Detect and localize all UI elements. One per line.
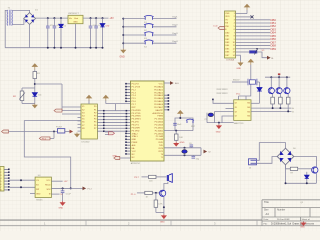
push button S3 (144, 32, 154, 36)
port SDA (109, 132, 115, 135)
wire q4 emitter (287, 94, 289, 97)
svg-text:GND: GND (59, 208, 64, 210)
junction regulator gnd (75, 47, 77, 49)
wire rectified rail (36, 17, 69, 19)
wire key left (123, 34, 145, 36)
svg-text:CON16A: CON16A (226, 59, 235, 62)
svg-text:SG: SG (247, 116, 250, 118)
svg-text:SCK: SCK (46, 189, 51, 191)
wire key left (123, 26, 145, 28)
junction gnd rail 2 (60, 47, 62, 49)
port LCD (218, 27, 225, 30)
pin tick U3 6 (103, 125, 105, 127)
wire row14 down (240, 55, 242, 61)
svg-text:GND: GND (300, 226, 305, 228)
port INT0 (54, 109, 62, 112)
wire to base (152, 192, 159, 194)
wire r3 gnd (175, 140, 177, 142)
MCU left pin 1 (126, 83, 131, 85)
ground j1 (239, 61, 243, 65)
svg-text:PSEN: PSEN (157, 116, 163, 118)
wire bridge to rail (285, 165, 287, 184)
J2 pin 8 (4, 189, 9, 191)
ground sensor (33, 104, 37, 108)
svg-text:RXD: RXD (159, 142, 164, 144)
junction emitter (163, 206, 165, 208)
junction gnd rail (90, 47, 92, 49)
wire led top lead (102, 18, 104, 23)
svg-text:D2: D2 (64, 26, 66, 28)
svg-text:P3.3/INT1: P3.3/INT1 (132, 119, 142, 121)
reset button S5 (186, 119, 194, 123)
junction rail left (285, 182, 287, 184)
wire down to ds1302 (61, 84, 63, 111)
svg-text:ALE: ALE (132, 144, 137, 147)
svg-text:GND: GND (236, 68, 241, 70)
junction key bus (122, 18, 124, 20)
junction row a2 (279, 107, 281, 109)
svg-text:SG: SG (247, 107, 250, 109)
wire U3-MCU 8 (97, 130, 130, 132)
junction key bus (122, 26, 124, 28)
wire opto bottom (22, 103, 35, 105)
wire key left (123, 42, 145, 44)
pin tick U3 4 (103, 119, 105, 121)
diode D4 (33, 93, 38, 96)
IC U3 pin text (82, 106, 97, 130)
wire diode bottom lead (60, 28, 62, 48)
wire u4 pin3 out (51, 193, 59, 195)
MCU left pin 3 (126, 89, 131, 91)
svg-text:EA/VPP: EA/VPP (156, 109, 164, 112)
wire j1 row14 (236, 54, 241, 56)
svg-text:P1.1/T2X: P1.1/T2X (132, 86, 141, 88)
wire key left (123, 18, 145, 20)
svg-text:P0.5/AD5: P0.5/AD5 (154, 100, 164, 103)
svg-text:P0.0/AD0: P0.0/AD0 (154, 85, 164, 88)
svg-text:GND: GND (216, 131, 221, 133)
pin tick U3 7 (103, 127, 105, 129)
resistor R3 (174, 134, 178, 140)
wire cap bottom lead (90, 28, 92, 48)
wire buzzer down (164, 182, 168, 191)
transistor Q4 (284, 88, 290, 94)
svg-text:VCC: VCC (236, 93, 241, 95)
crystal Y1 (182, 150, 187, 154)
wire rail vcc stub (278, 75, 280, 78)
wire vcc reset stem (179, 116, 181, 118)
svg-text:P2.2/A10: P2.2/A10 (155, 132, 164, 135)
wire emitter join (156, 212, 164, 214)
wire diode top lead (60, 18, 62, 24)
svg-text:A4: A4 (266, 212, 270, 216)
svg-text:SG: SG (247, 103, 250, 105)
wire j1 data 5 (236, 35, 271, 37)
svg-text:DB9: DB9 (271, 47, 277, 51)
wire vcc u7 path (239, 65, 251, 100)
wire bridge bottom (286, 165, 291, 169)
wire q1 collector (270, 77, 272, 87)
MCU left pin low 5 (126, 144, 131, 146)
svg-text:NC: NC (132, 154, 135, 156)
svg-text:PC817: PC817 (56, 126, 63, 128)
zone tick 3 (256, 220, 258, 226)
IC U3 DS1302 (81, 104, 97, 139)
svg-text:P2.0/A8: P2.0/A8 (156, 138, 164, 141)
wire c8 top (62, 188, 64, 190)
wire emitter (163, 196, 165, 212)
wire c6 leg (190, 147, 192, 148)
connector J1 pin text (225, 13, 235, 57)
MCU left pin low 8 (126, 153, 131, 155)
transistor Q1 (159, 190, 165, 196)
svg-text:VO: VO (225, 19, 228, 21)
wire bridge to gnd rail (29, 24, 31, 47)
sheet border line 1 (0, 219, 262, 221)
wire j1 data 9 (236, 48, 271, 50)
wire to R3 (175, 131, 177, 134)
junction u4 a (20, 179, 22, 181)
svg-text:Key2: Key2 (173, 25, 179, 27)
svg-text:DS1302: DS1302 (82, 142, 91, 144)
wire opto left bottom (21, 101, 23, 104)
capacitor C6 (190, 145, 194, 147)
J2 pin 1 (4, 168, 9, 170)
junction 5v c3 (90, 17, 92, 19)
connector J2 pin text (0, 169, 1, 192)
wire to U3 pin3 (62, 113, 81, 115)
wire j3 bottom (257, 157, 278, 164)
wire p3.7 (142, 176, 149, 178)
crystal Y2 (208, 113, 213, 117)
wire diode d7 (306, 172, 308, 184)
wire xtal join (200, 148, 202, 156)
svg-text:PSEN: PSEN (132, 142, 138, 144)
J2 pin 5 (4, 180, 9, 182)
svg-text:P3.7/RD: P3.7/RD (132, 130, 140, 132)
svg-text:VSS: VSS (225, 13, 230, 15)
transistor Q5 (312, 167, 318, 174)
capacitor C3 (89, 26, 93, 28)
U3 left pin stub (78, 127, 82, 129)
wire j1 data 0 (236, 19, 271, 21)
MCU right pin 2 (164, 97, 168, 99)
J2 pin 4 (4, 177, 9, 179)
svg-text:+5V: +5V (64, 181, 68, 183)
pin tick MCU 5 (126, 122, 128, 124)
wire opto left top (21, 88, 23, 91)
transformer T1 (7, 10, 12, 26)
junction u4 b (20, 186, 22, 188)
IC U4 pin text (36, 180, 51, 196)
wire rp1 out (257, 52, 267, 58)
diode D5 (257, 88, 262, 91)
svg-text:GND: GND (180, 142, 185, 144)
wire j1 data 2 (236, 25, 271, 27)
svg-text:HOLD: HOLD (45, 184, 51, 186)
svg-text:P2.4/A12: P2.4/A12 (155, 126, 164, 129)
junction key bus (122, 42, 124, 44)
svg-text:xxxx:xxxxx: xxxx:xxxxx (217, 93, 229, 95)
thermistor R2 (20, 91, 24, 101)
wire u4 vcc pin (51, 180, 62, 182)
wire vcc j1 stem (246, 10, 248, 14)
MCU left pin low 6 (126, 147, 131, 149)
wire cap bottom lead (53, 28, 55, 48)
J2 pin 7 (4, 186, 9, 188)
wire reset bottom (164, 130, 193, 132)
wire branch (50, 137, 54, 139)
svg-text:AT89C52: AT89C52 (131, 162, 141, 165)
svg-text:P3.0/RXD: P3.0/RXD (132, 110, 142, 112)
svg-text:P2.5/A13: P2.5/A13 (155, 124, 164, 127)
ground reset (174, 142, 178, 146)
resistor R5 (145, 191, 153, 194)
power VCC reset (178, 111, 182, 117)
svg-text:VDD: VDD (225, 16, 230, 18)
svg-text:ALE/PROG: ALE/PROG (153, 112, 164, 115)
svg-text:Key1: Key1 (173, 17, 179, 19)
wire j1 data 8 (236, 45, 271, 47)
wire key right (153, 26, 177, 28)
wire j2 to u4 b (9, 186, 35, 188)
junction row b1 (287, 110, 289, 112)
junction loop (70, 187, 72, 189)
svg-text:TXD: TXD (159, 145, 164, 147)
MCU right pin 5 (164, 106, 168, 108)
pin tick MCU 7 (126, 127, 128, 129)
wire y2 right leg (214, 112, 216, 123)
wire sensor to right (35, 83, 62, 85)
wire j1 data 1 (236, 22, 271, 24)
svg-text:Key4: Key4 (173, 41, 179, 43)
wire opto out (65, 131, 70, 133)
svg-text:P2.6/A14: P2.6/A14 (155, 121, 164, 124)
junction row a1 (272, 107, 274, 109)
junction gnd rail (95, 47, 97, 49)
svg-text:+5V: +5V (109, 17, 114, 20)
connector J1 LCD (225, 11, 236, 58)
wire y2 left leg (206, 113, 208, 123)
transistor Q3 (276, 88, 282, 94)
svg-text:7: 7 (0, 187, 1, 189)
svg-text:8: 8 (0, 190, 1, 192)
capacitor C2 (53, 26, 57, 28)
ground y2 (217, 124, 221, 128)
pin tick U3 8 (103, 130, 105, 132)
svg-text:4.7K: 4.7K (158, 204, 163, 206)
diode D7 (305, 175, 309, 178)
junction 5v c4 (95, 17, 97, 19)
wire y1 bottom leg (184, 154, 186, 156)
port XTAL arrow (204, 150, 208, 154)
pin tick MCU 4 (126, 119, 128, 121)
wire y2 gnd stub (218, 123, 220, 125)
wire q3 emitter (279, 94, 281, 97)
wire diode branch (259, 82, 261, 103)
svg-text:RW: RW (225, 26, 228, 28)
wire U3-MCU 4 (97, 118, 130, 120)
U3 left pin stub (78, 120, 82, 122)
svg-text:VCC: VCC (132, 151, 137, 153)
resistor R4 (149, 175, 157, 178)
wire cap top lead (90, 18, 92, 26)
U3 left pin stub (78, 123, 82, 125)
svg-text:P0.6/AD6: P0.6/AD6 (154, 103, 164, 106)
transistor Q2 (268, 88, 274, 94)
MCU right pin 6 (164, 109, 168, 111)
sheet border line 2 (0, 225, 320, 227)
wire secondary bottom (12, 19, 24, 25)
wire U3-MCU 2 (97, 113, 130, 115)
wire base pulldown (155, 193, 157, 200)
svg-text:P1.0/T2: P1.0/T2 (132, 84, 140, 86)
wire q rail (265, 76, 290, 78)
resistor R7 (290, 167, 297, 170)
U3 left pin stub (78, 130, 82, 132)
wire to q5 base (298, 168, 312, 170)
junction rail d2 (60, 17, 62, 19)
wire key right (153, 34, 177, 36)
power VCC U3 (87, 96, 91, 102)
MCU left pin 6 (126, 97, 131, 99)
wire rq3 down (287, 104, 289, 111)
port VO arrow (267, 56, 271, 60)
wire opto top (22, 87, 35, 89)
svg-text:P0.1/AD1: P0.1/AD1 (154, 88, 164, 91)
wire U3-MCU 6 (97, 124, 130, 126)
svg-text:P3.6/WR: P3.6/WR (132, 127, 141, 129)
wire opto row (9, 131, 58, 133)
svg-text:P3.4/T0: P3.4/T0 (132, 122, 140, 124)
LED D3 (100, 24, 104, 27)
wire y1 top leg (184, 148, 186, 150)
wire u7 row b (251, 110, 292, 112)
wire led bottom lead (102, 28, 104, 48)
capacitor C1 (46, 26, 50, 28)
svg-text:ALE: ALE (175, 82, 180, 85)
wire branch down (53, 132, 55, 139)
svg-text:P2.7/A15: P2.7/A15 (155, 118, 164, 121)
push button S1 (144, 15, 154, 19)
svg-text:P3.2/INT0: P3.2/INT0 (132, 116, 142, 118)
wire vcc stem (105, 101, 107, 104)
wire j1 data 7 (236, 41, 271, 43)
wire long to U3 (24, 120, 81, 122)
junction key bus (122, 34, 124, 36)
wire q3 collector (286, 77, 288, 87)
MCU U1 pin text (132, 84, 164, 159)
MCU left pin 4 (126, 92, 131, 94)
svg-text:Vin Vout: Vin Vout (69, 17, 79, 20)
svg-text:P3.1/TXD: P3.1/TXD (132, 113, 141, 115)
svg-text:P2.1/A9: P2.1/A9 (156, 135, 164, 138)
junction rail q1 (270, 76, 272, 78)
wire port a (105, 131, 113, 133)
ground symbol near title block (302, 222, 306, 226)
wire j1 row13 (236, 51, 250, 53)
svg-text:GND: GND (36, 193, 41, 195)
pin tick MCU 2 (126, 113, 128, 115)
wire ground rail (5, 47, 102, 49)
svg-text:0.1uF: 0.1uF (66, 194, 72, 196)
bridge rectifier D1 (24, 13, 36, 25)
svg-text:4: 4 (0, 178, 1, 180)
svg-text:Sheet of: Sheet of (302, 218, 311, 221)
wire c7 leg (192, 155, 194, 156)
bridge rectifier D6 (277, 148, 294, 165)
junction cap c8 (62, 187, 64, 189)
port ALE arrow (170, 81, 174, 85)
MCU right pin 1 (164, 94, 168, 96)
push button S2 (144, 24, 154, 28)
power VCC U7 (249, 60, 253, 66)
stub u4 pin3 (30, 193, 35, 195)
connector J3 (249, 159, 257, 165)
svg-text:5: 5 (0, 181, 1, 183)
svg-text:LM7805CT: LM7805CT (68, 13, 79, 15)
pin tick U3 1 (103, 110, 105, 112)
MCU U1 AT89C52 (131, 81, 165, 161)
junction d7 (306, 182, 308, 184)
J2 pin 2 (4, 171, 9, 173)
ground c8 (61, 201, 65, 205)
wire j1 data 6 (236, 38, 271, 40)
U3 left pin stub (78, 117, 82, 119)
MCU left pin 2 (126, 86, 131, 88)
wire key right (153, 42, 177, 44)
svg-text:GND: GND (160, 222, 165, 224)
wire vcc to U3 (88, 101, 90, 105)
transformer T1 primary lead (5, 10, 7, 47)
wire MCU gnd pin (120, 157, 131, 159)
wire x2 left (232, 81, 248, 83)
svg-text:VCC: VCC (159, 84, 164, 86)
wire U3-MCU 3 (97, 116, 130, 118)
svg-text:P3.2: P3.2 (42, 138, 46, 140)
svg-text:XTAL1: XTAL1 (132, 135, 139, 138)
optocoupler U6 (58, 129, 65, 133)
wire U3-MCU 5 (97, 121, 130, 123)
svg-text:P0.3/AD3: P0.3/AD3 (154, 94, 164, 97)
capacitor C5 10uF (173, 123, 177, 125)
wire regulator gnd pin (75, 24, 77, 48)
svg-text:xxxx:xxxxx: xxxx:xxxxx (217, 89, 229, 91)
wire j1 data 3 (236, 28, 271, 30)
resistor Rq3 (286, 97, 290, 104)
svg-text:NC: NC (132, 157, 135, 159)
port AC detect (2, 130, 9, 133)
zener diode D2 (59, 24, 63, 27)
MCU left pin 7 (126, 100, 131, 102)
thermistor R2 arrow (19, 93, 25, 100)
wire cap top lead (53, 18, 55, 26)
svg-text:VCC: VCC (46, 180, 51, 182)
wire key right (153, 18, 177, 20)
wire XTAL1 (164, 147, 201, 149)
resistor Rq2 (279, 97, 283, 104)
pin tick U3 3 (103, 116, 105, 118)
wire U3-MCU 7 (97, 127, 130, 129)
svg-text:3: 3 (0, 175, 1, 177)
pin tick MCU 1 (126, 110, 128, 112)
MCU left pin low 1 (126, 133, 131, 135)
svg-text:XTAL2: XTAL2 (132, 132, 139, 135)
wire y2 gnd row (207, 122, 234, 124)
wire XTAL2 (164, 154, 201, 156)
wire cap top lead (95, 18, 97, 26)
wire j1 row1 (236, 13, 248, 15)
